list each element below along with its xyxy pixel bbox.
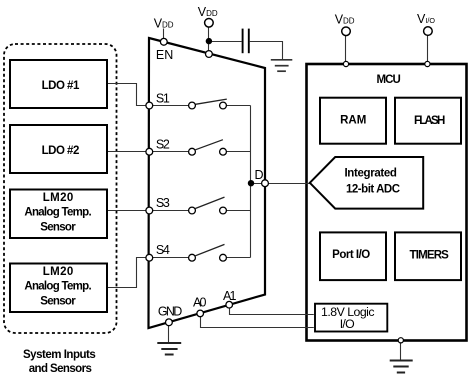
- pin S1 circle: [146, 102, 153, 109]
- wire VDD to MCU: [345, 35, 347, 62]
- MCU VDD edge circle: [343, 61, 348, 66]
- svg-text:Sensor: Sensor: [40, 295, 76, 307]
- MCU ground edge circle: [398, 338, 403, 343]
- analog mux body U1: [149, 38, 266, 328]
- label LM20 sensor 1: [24, 192, 91, 233]
- TIMERS box: [395, 232, 461, 280]
- S3 contact b: [220, 207, 227, 214]
- pin GND circle: [166, 319, 173, 326]
- label integrated 12-bit ADC: [344, 167, 400, 195]
- switch S1 blade: [195, 99, 226, 104]
- switch S4 wires: [152, 257, 189, 259]
- wire capacitor to ground: [250, 42, 283, 60]
- svg-text:EN: EN: [156, 48, 173, 62]
- Port I/O box: [320, 232, 386, 280]
- S4 contact a: [189, 254, 196, 261]
- pin D circle: [262, 180, 269, 187]
- capacitor C1: [242, 29, 244, 54]
- switch S4 blade: [195, 244, 224, 255]
- wire D output to ADC: [251, 183, 310, 185]
- svg-text:Sensor: Sensor: [40, 221, 76, 233]
- label LM20 sensor 2: [24, 266, 91, 307]
- caption system inputs and sensors: [23, 349, 96, 375]
- wire VDD to EN pin: [163, 29, 165, 41]
- wire A0 to 1.8V logic: [201, 316, 314, 327]
- VIO terminal circle: [424, 27, 433, 36]
- label 1.8V logic I/O: [321, 305, 375, 331]
- VDD terminal circle (mux): [205, 19, 214, 28]
- svg-text:S3: S3: [156, 196, 170, 210]
- pin S3 circle: [146, 207, 153, 214]
- junction dot VDD/cap: [206, 38, 212, 44]
- svg-text:Integrated: Integrated: [344, 167, 397, 179]
- wire MCU to ground: [400, 342, 402, 360]
- svg-text:S2: S2: [156, 138, 170, 152]
- svg-text:A1: A1: [223, 289, 236, 303]
- svg-text:MCU: MCU: [377, 74, 401, 86]
- pin S4 circle: [146, 254, 153, 261]
- wire A1 to 1.8V logic: [230, 308, 314, 315]
- svg-text:12-bit ADC: 12-bit ADC: [346, 184, 400, 196]
- svg-text:RAM: RAM: [340, 114, 366, 126]
- ADC block U2: [310, 157, 423, 209]
- wire VDD supply to mux top: [208, 27, 210, 53]
- S4 contact b: [220, 254, 227, 261]
- FLASH box: [395, 98, 461, 144]
- switch S2 wires: [152, 151, 189, 153]
- svg-text:D: D: [255, 168, 264, 182]
- LDO #2 box: [10, 125, 107, 173]
- pin A0 circle: [197, 310, 204, 317]
- switch S3 wires: [152, 210, 189, 212]
- 1.8V logic I/O box: [315, 304, 387, 332]
- common bus wire: [250, 106, 252, 258]
- svg-text:Analog Temp.: Analog Temp.: [24, 281, 91, 293]
- LDO #1 box: [10, 60, 107, 108]
- LM20 sensor 2 box: [10, 264, 107, 313]
- switch S3 blade: [195, 197, 224, 208]
- LM20 sensor 1 box: [10, 190, 107, 239]
- junction dot D bus: [248, 180, 254, 186]
- wire VIO to MCU: [427, 35, 429, 62]
- RAM box: [320, 98, 386, 144]
- svg-text:Analog Temp.: Analog Temp.: [24, 207, 91, 219]
- svg-text:and Sensors: and Sensors: [29, 363, 92, 375]
- svg-text:FLASH: FLASH: [414, 115, 445, 127]
- ground symbol (capacitor): [271, 60, 293, 71]
- pin EN circle: [160, 38, 167, 45]
- wire LDO1 to S1: [107, 84, 149, 106]
- svg-text:A0: A0: [193, 296, 207, 310]
- dashed container: system inputs and sensors: [4, 44, 117, 333]
- svg-text:System Inputs: System Inputs: [23, 349, 96, 361]
- wire VDD to capacitor: [209, 41, 242, 43]
- svg-text:LM20: LM20: [43, 192, 74, 204]
- svg-text:S4: S4: [156, 243, 170, 257]
- pin S2 circle: [146, 148, 153, 155]
- wire LM20-1 to S3: [107, 210, 149, 212]
- S2 contact a: [189, 148, 196, 155]
- svg-text:I/O: I/O: [340, 317, 355, 331]
- svg-text:LM20: LM20: [43, 266, 74, 278]
- wire GND pin to ground: [168, 325, 170, 342]
- svg-text:LDO #1: LDO #1: [42, 80, 80, 92]
- S3 contact a: [189, 207, 196, 214]
- switch S2 blade: [195, 140, 223, 150]
- svg-text:S1: S1: [156, 91, 170, 105]
- MCU box: [307, 64, 467, 341]
- ground symbol (MCU): [390, 361, 413, 373]
- wire LM20-2 to S4: [107, 258, 149, 288]
- svg-text:TIMERS: TIMERS: [410, 249, 450, 261]
- MCU VIO edge circle: [425, 61, 430, 66]
- pin circle VDD on mux edge: [206, 51, 213, 58]
- wire LDO2 to S2: [107, 151, 149, 153]
- pin A1 circle: [226, 301, 233, 308]
- S1 contact b: [220, 102, 227, 109]
- svg-text:LDO #2: LDO #2: [42, 145, 80, 157]
- S2 contact b: [220, 148, 227, 155]
- S1 contact a: [189, 102, 196, 109]
- ground symbol (mux GND): [157, 343, 181, 355]
- svg-text:Port I/O: Port I/O: [332, 249, 370, 261]
- VDD terminal circle (MCU): [342, 27, 351, 36]
- switch S1 wires: [152, 105, 189, 107]
- svg-text:GND: GND: [158, 304, 182, 318]
